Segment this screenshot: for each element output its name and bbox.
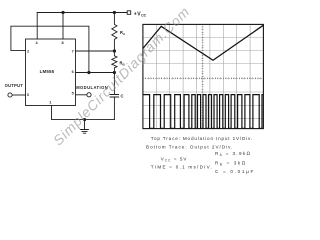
svg-text:5: 5: [72, 92, 74, 96]
svg-text:RA = 3.9kΩ: RA = 3.9kΩ: [215, 151, 251, 157]
wire pin4 drop: [36, 13, 38, 40]
svg-text:TIME = 0.1 ms/DIV.: TIME = 0.1 ms/DIV.: [151, 164, 213, 169]
svg-text:3: 3: [27, 93, 29, 97]
node ground junction: [83, 118, 86, 121]
svg-text:VCC = 5V: VCC = 5V: [161, 157, 188, 163]
wire pin6: [76, 72, 115, 74]
trace PWM output: [143, 95, 263, 129]
capacitor C: [110, 73, 119, 120]
svg-text:+VCC: +VCC: [134, 11, 147, 17]
svg-text:SimpleCircuitDiagram.Com: SimpleCircuitDiagram.Com: [50, 4, 192, 149]
svg-text:Top Trace: Modulation Input 1V: Top Trace: Modulation Input 1V/Div.: [151, 136, 253, 141]
trace triangle modulation input: [143, 25, 264, 60]
node pin7 junction: [113, 49, 116, 52]
wire pin2 loop: [11, 26, 89, 72]
node pin6 junction: [113, 71, 116, 74]
node pin8 on rail: [61, 11, 64, 14]
svg-text:C: C: [121, 94, 124, 99]
scope grid minor lines: [143, 24, 264, 128]
svg-text:RA: RA: [120, 30, 126, 36]
svg-text:2: 2: [27, 50, 29, 54]
terminal OUTPUT circle: [8, 93, 12, 97]
scope ticked horizontal axis: [143, 77, 264, 79]
node loop to pin6: [87, 71, 90, 74]
resistor RB: [112, 51, 117, 73]
svg-text:4: 4: [36, 41, 39, 45]
terminal +Vcc square: [127, 11, 131, 15]
svg-text:OUTPUT: OUTPUT: [5, 83, 24, 88]
scope ticked vertical axis: [202, 24, 204, 128]
wire top rail Vcc: [37, 12, 127, 14]
ground: [81, 120, 89, 134]
svg-text:RB = 3kΩ: RB = 3kΩ: [215, 161, 247, 167]
wire pin7: [76, 50, 115, 52]
caption text: [146, 136, 255, 174]
wire output to pin3: [12, 94, 25, 96]
terminal MODULATION circle: [87, 93, 91, 97]
svg-text:6: 6: [72, 70, 74, 74]
resistor RA: [112, 13, 117, 52]
IC U1 LM555 box: [26, 39, 76, 106]
svg-text:8: 8: [62, 41, 64, 45]
wire pin5 to modulation: [76, 94, 87, 96]
wire pin1 to ground rail: [52, 106, 115, 120]
svg-text:LM555: LM555: [40, 69, 55, 74]
node RA top: [113, 11, 116, 14]
wire pin8 drop: [62, 13, 64, 40]
scope border: [143, 24, 264, 128]
svg-text:Bottom Trace: Output 2V/Div.: Bottom Trace: Output 2V/Div.: [146, 145, 233, 150]
svg-text:C = 0.01µF: C = 0.01µF: [215, 169, 255, 174]
svg-text:7: 7: [72, 50, 74, 54]
svg-text:1: 1: [49, 100, 51, 104]
